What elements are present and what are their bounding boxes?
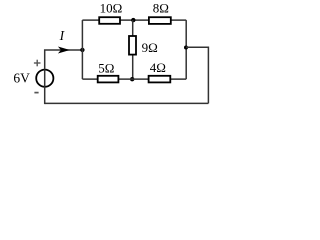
minus sign — [34, 92, 38, 94]
resistor R3 9ohm (vertical) — [129, 36, 136, 55]
svg-text:9Ω: 9Ω — [142, 40, 158, 55]
voltage source V1 (6V) — [36, 70, 53, 87]
wire: 9ohm branch vertical — [132, 20, 134, 79]
node D junction dot — [184, 46, 188, 50]
svg-text:4Ω: 4Ω — [150, 60, 166, 75]
plus sign — [34, 60, 41, 67]
resistor R4 5ohm — [98, 76, 119, 83]
svg-text:I: I — [59, 28, 66, 43]
wire source internal vertical — [44, 70, 46, 87]
wire: bottom rail — [45, 102, 209, 104]
resistor R5 4ohm — [149, 76, 171, 83]
svg-text:10Ω: 10Ω — [100, 1, 123, 16]
wire: top rail — [82, 19, 186, 21]
resistor R2 8ohm — [149, 17, 171, 24]
wire: source bottom down to bottom rail — [44, 87, 46, 104]
svg-text:6V: 6V — [13, 70, 30, 85]
wire: node D to right rail and down — [186, 47, 208, 103]
svg-text:5Ω: 5Ω — [98, 61, 114, 76]
node C junction dot (bottom of 9ohm) — [130, 77, 134, 81]
wire: left vertical branch x=82.4 from top rail to middle rail — [81, 20, 83, 79]
svg-text:8Ω: 8Ω — [153, 1, 169, 16]
wire: source top up and right to node A — [45, 50, 83, 69]
resistor R1 10ohm — [99, 17, 120, 24]
node B junction dot (top of 9ohm) — [131, 18, 135, 22]
wire: middle rail — [82, 78, 186, 80]
current arrow I — [58, 47, 70, 54]
node A junction dot — [80, 48, 84, 52]
wire: right vertical branch x=186.2 — [185, 20, 187, 79]
